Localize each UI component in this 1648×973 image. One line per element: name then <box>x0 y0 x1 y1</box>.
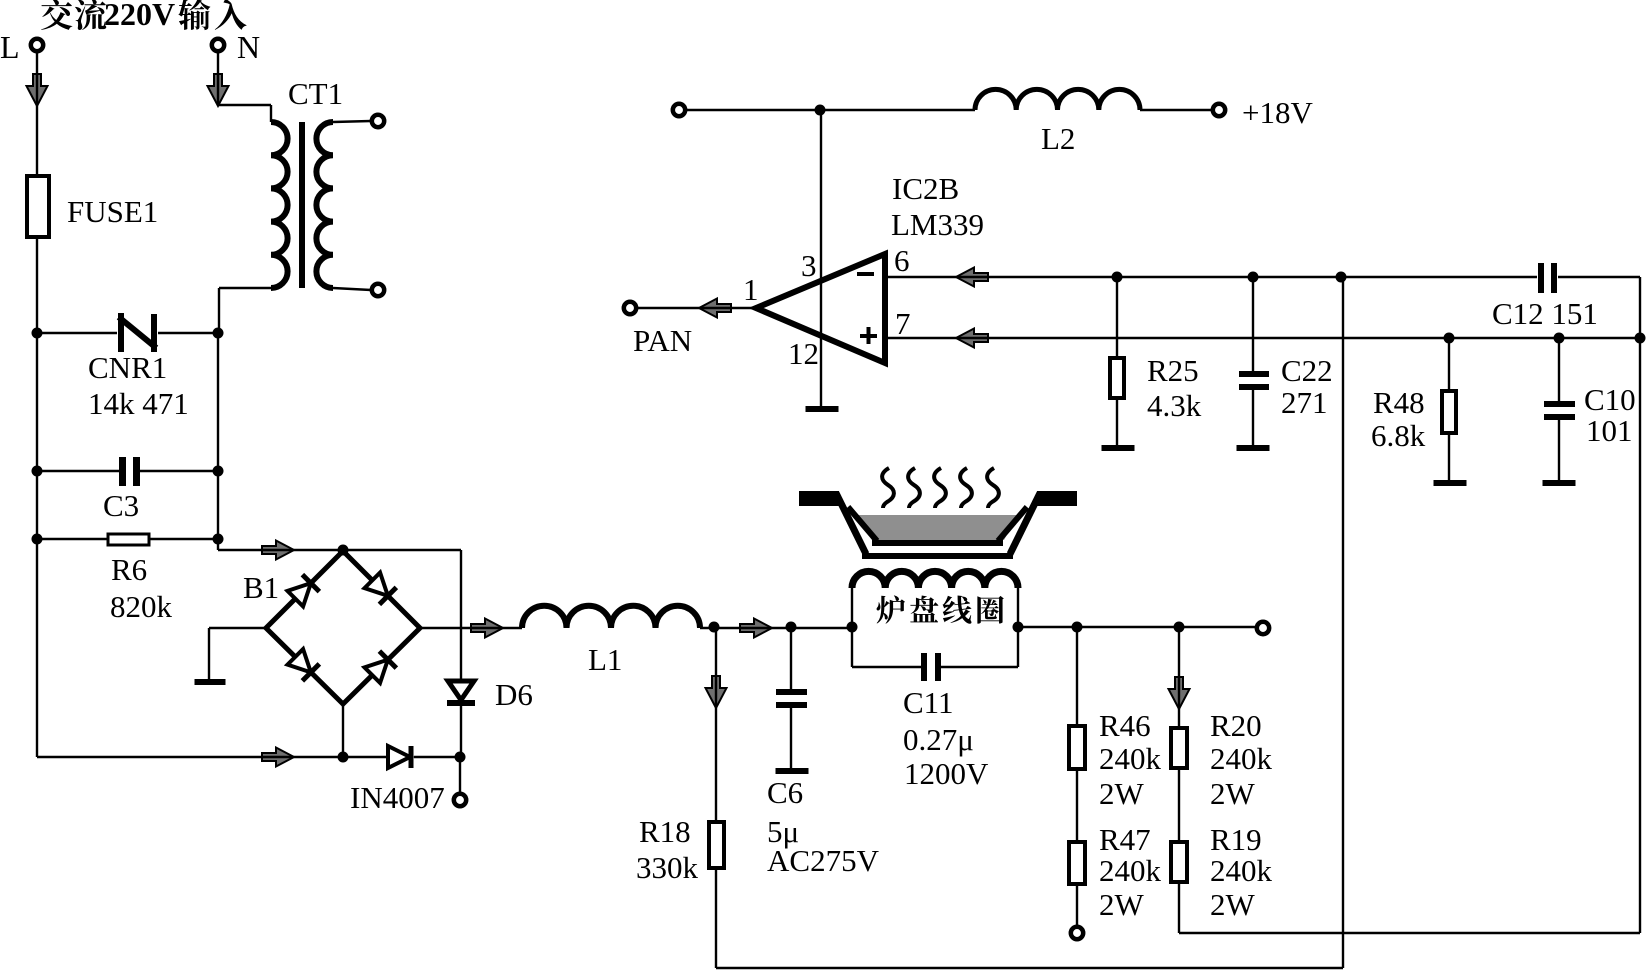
svg-text:240k: 240k <box>1210 741 1273 776</box>
svg-text:R25: R25 <box>1147 353 1199 388</box>
svg-text:240k: 240k <box>1099 741 1162 776</box>
svg-text:R6: R6 <box>111 552 147 587</box>
svg-text:2W: 2W <box>1210 776 1256 811</box>
svg-text:N: N <box>237 29 260 65</box>
svg-text:4.3k: 4.3k <box>1147 388 1202 423</box>
svg-text:1200V: 1200V <box>904 756 989 791</box>
svg-text:C12 151: C12 151 <box>1492 296 1598 331</box>
svg-text:7: 7 <box>895 306 911 341</box>
svg-text:R20: R20 <box>1210 708 1262 743</box>
svg-text:R18: R18 <box>639 814 691 849</box>
svg-text:CNR1: CNR1 <box>88 350 167 385</box>
svg-text:271: 271 <box>1281 385 1328 420</box>
svg-text:3: 3 <box>801 248 817 283</box>
svg-text:2W: 2W <box>1099 776 1145 811</box>
svg-text:D6: D6 <box>495 677 533 712</box>
svg-text:820k: 820k <box>110 589 173 624</box>
svg-text:14k 471: 14k 471 <box>88 386 189 421</box>
svg-text:IC2B: IC2B <box>892 171 959 206</box>
svg-text:B1: B1 <box>243 570 279 605</box>
svg-text:R19: R19 <box>1210 822 1262 857</box>
svg-text:2W: 2W <box>1099 887 1145 922</box>
svg-text:6.8k: 6.8k <box>1371 418 1426 453</box>
svg-text:1: 1 <box>743 272 759 307</box>
svg-text:330k: 330k <box>636 850 699 885</box>
svg-text:C10: C10 <box>1584 382 1636 417</box>
svg-text:C3: C3 <box>103 488 139 523</box>
svg-text:101: 101 <box>1586 413 1633 448</box>
svg-text:C11: C11 <box>903 685 954 720</box>
svg-text:6: 6 <box>894 243 910 278</box>
svg-text:L2: L2 <box>1041 121 1075 156</box>
svg-text:PAN: PAN <box>633 323 692 358</box>
svg-text:C22: C22 <box>1281 353 1333 388</box>
svg-text:R47: R47 <box>1099 822 1151 857</box>
svg-text:R48: R48 <box>1373 385 1425 420</box>
svg-text:220V: 220V <box>104 0 175 32</box>
svg-text:L1: L1 <box>588 642 622 677</box>
svg-text:240k: 240k <box>1210 853 1273 888</box>
svg-text:L: L <box>0 29 20 65</box>
svg-text:LM339: LM339 <box>891 207 984 242</box>
svg-text:AC275V: AC275V <box>767 843 880 878</box>
svg-text:C6: C6 <box>767 775 803 810</box>
svg-text:12: 12 <box>788 336 819 371</box>
svg-text:CT1: CT1 <box>288 76 343 111</box>
svg-text:2W: 2W <box>1210 887 1256 922</box>
svg-text:IN4007: IN4007 <box>350 780 445 815</box>
svg-text:240k: 240k <box>1099 853 1162 888</box>
svg-text:0.27μ: 0.27μ <box>903 722 974 757</box>
svg-text:+18V: +18V <box>1242 95 1313 130</box>
svg-text:FUSE1: FUSE1 <box>67 194 158 229</box>
svg-text:R46: R46 <box>1099 708 1151 743</box>
